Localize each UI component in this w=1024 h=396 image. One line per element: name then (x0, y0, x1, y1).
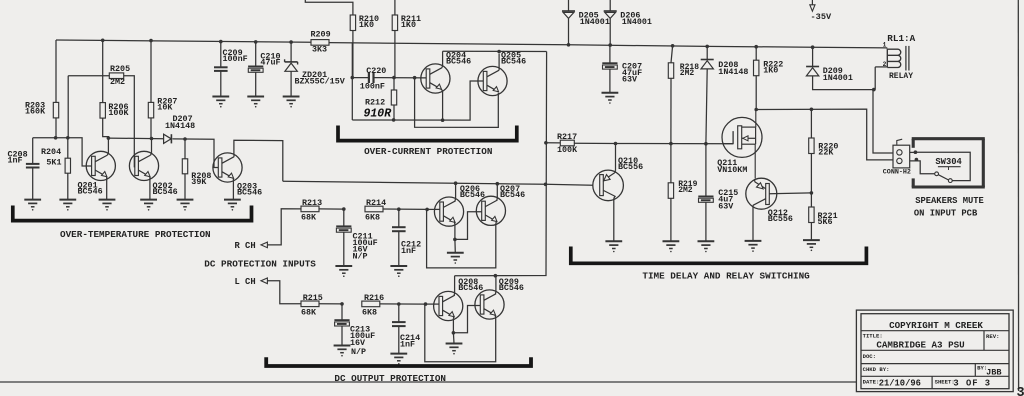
svg-text:1N4001: 1N4001 (622, 17, 652, 27)
transistor Q204 (421, 50, 471, 120)
svg-text:DOC:: DOC: (863, 353, 876, 360)
svg-text:BC546: BC546 (153, 187, 178, 197)
capacitor C220 (351, 66, 428, 92)
wire over-current bottom wire (352, 81, 484, 122)
handwritten sheet number 3 (1017, 386, 1024, 396)
svg-text:R214: R214 (366, 198, 386, 208)
resistor R221 (809, 193, 838, 240)
svg-text:100K: 100K (557, 145, 578, 155)
capacitor C213 (334, 302, 375, 357)
wire Q204-base to Q205-emitter link (415, 78, 499, 128)
resistor R214 (365, 198, 427, 222)
svg-text:6K8: 6K8 (365, 212, 380, 222)
wire Q207 emitter loop (427, 209, 496, 268)
svg-text:1N4001: 1N4001 (580, 17, 610, 27)
resistor R213 (301, 198, 344, 222)
svg-text:R213: R213 (302, 198, 322, 208)
svg-text:1nF: 1nF (8, 156, 23, 166)
transistor Q201 (78, 138, 116, 199)
wire Q206 ground stub (454, 239, 456, 252)
capacitor C215 (698, 144, 738, 241)
svg-text:6K8: 6K8 (362, 307, 377, 317)
label over-current protection (364, 146, 492, 157)
svg-text:68K: 68K (301, 307, 317, 317)
svg-text:1K0: 1K0 (359, 20, 374, 30)
ground R208 (177, 200, 194, 211)
ground Q206/Q207 (447, 253, 464, 264)
transistor Q206 (425, 183, 485, 239)
svg-text:R217: R217 (557, 132, 577, 142)
transistor Q208 (424, 276, 484, 333)
resistor R212 (364, 78, 397, 121)
scan border bottom line (0, 381, 856, 383)
svg-text:R215: R215 (303, 293, 323, 303)
svg-text:1nF: 1nF (400, 340, 415, 350)
svg-text:CHKD BY:: CHKD BY: (863, 366, 890, 373)
capacitor C212 (392, 207, 421, 265)
svg-text:5K6: 5K6 (818, 217, 833, 227)
svg-text:3 OF 3: 3 OF 3 (953, 379, 991, 389)
svg-text:3K3: 3K3 (312, 44, 327, 54)
relay RL1:A (875, 33, 915, 81)
bracket over-temperature protection (13, 206, 252, 221)
capacitor C210 (248, 40, 280, 96)
ground Q203 (224, 200, 241, 211)
svg-text:BC546: BC546 (78, 186, 103, 196)
transistor Q202 (129, 139, 177, 200)
capacitor C214 (392, 302, 420, 353)
svg-text:C220: C220 (366, 66, 386, 76)
svg-text:R CH: R CH (235, 241, 256, 251)
ground R219 (663, 241, 680, 252)
wire relay pin2 to conn pin1 (872, 67, 893, 153)
box speakers mute (thick border) (912, 139, 985, 187)
svg-text:5K1: 5K1 (46, 157, 61, 167)
switch SW304 wiring (910, 150, 971, 182)
label over-temperature protection (60, 229, 211, 240)
svg-text:COPYRIGHT M CREEK: COPYRIGHT M CREEK (889, 320, 983, 331)
svg-text:BC546: BC546 (499, 283, 524, 293)
resistor R216 (362, 293, 426, 317)
scan border right line (1017, 0, 1019, 391)
ground C212 (390, 266, 407, 277)
resistor R204 (41, 136, 71, 199)
diode D206 (604, 0, 652, 47)
bracket over-current protection (338, 126, 517, 141)
bracket time delay and relay switching (571, 247, 867, 264)
svg-text:BC546: BC546 (458, 283, 483, 293)
svg-text:SHEET:: SHEET: (935, 379, 955, 386)
svg-text:BC556: BC556 (618, 162, 643, 172)
transistor Q203 (213, 140, 283, 199)
resistor R219 (668, 144, 697, 241)
ground C209 (212, 97, 229, 108)
svg-text:L CH: L CH (235, 277, 256, 287)
ground C208 (24, 200, 41, 211)
svg-text:100K: 100K (108, 108, 129, 118)
ground Q202 (140, 200, 157, 211)
connector CONN-H2 (883, 139, 911, 176)
diode D207 (164, 114, 196, 143)
resistor R217 (546, 132, 616, 155)
wire Q206 emitter to Q207 base (453, 212, 482, 241)
svg-text:OVER-CURRENT PROTECTION: OVER-CURRENT PROTECTION (364, 146, 492, 157)
label dc output protection (334, 373, 446, 384)
input L CH arrow (235, 277, 302, 304)
mosfet Q211 (717, 110, 762, 179)
wire Q208 ground stub (452, 333, 455, 344)
capacitor C211 (336, 207, 377, 265)
resistor R210 (350, 14, 379, 78)
ground R221 (803, 240, 820, 251)
svg-text:2M2: 2M2 (680, 69, 695, 78)
ground Q208/Q209 (446, 344, 463, 355)
ground R204 (59, 200, 76, 211)
resistor R218 (668, 44, 699, 144)
label speakers mute (915, 196, 984, 206)
svg-text:TITLE:: TITLE: (863, 333, 883, 340)
label dc protection inputs (204, 258, 316, 269)
svg-text:68K: 68K (301, 212, 317, 222)
title block (856, 310, 1013, 392)
resistor R208 (182, 139, 211, 199)
resistor R220 (809, 109, 839, 194)
capacitor C208 (8, 138, 40, 200)
svg-text:BC546: BC546 (237, 188, 262, 198)
ground C207 (602, 93, 619, 104)
svg-text:DC PROTECTION INPUTS: DC PROTECTION INPUTS (204, 258, 316, 269)
svg-text:BC546: BC546 (500, 190, 525, 200)
resistor R206 (100, 39, 129, 139)
svg-text:R204: R204 (41, 147, 61, 157)
wire main -35V rail left segment (56, 40, 311, 42)
wire D207 to Q203 base (173, 137, 219, 167)
resistor R211 (392, 14, 421, 78)
svg-text:N/P: N/P (351, 347, 366, 357)
svg-text:3: 3 (1017, 386, 1024, 396)
svg-text:RL1:A: RL1:A (887, 33, 915, 44)
resistor R209 (311, 29, 331, 54)
svg-text:CAMBRIDGE A3 PSU: CAMBRIDGE A3 PSU (876, 340, 964, 351)
svg-text:22K: 22K (818, 148, 834, 158)
svg-text:1: 1 (883, 42, 887, 49)
svg-text:100nF: 100nF (223, 54, 248, 64)
ground C211 (335, 266, 352, 277)
svg-text:2M2: 2M2 (110, 77, 125, 87)
label on input pcb (914, 208, 978, 218)
wire net-A horizontal (33, 138, 93, 166)
svg-text:2M2: 2M2 (678, 186, 693, 195)
capacitor C207 (602, 45, 642, 93)
svg-text:REV:: REV: (986, 333, 999, 340)
wire Q209 emitter loop (425, 304, 496, 362)
svg-text:N/P: N/P (353, 251, 368, 261)
resistor R215 (301, 293, 342, 317)
transistor Q210 (546, 144, 644, 241)
svg-text:CONN-H2: CONN-H2 (883, 169, 911, 177)
svg-text:1K0: 1K0 (763, 66, 778, 76)
diode D205 (562, 0, 610, 47)
svg-text:-35V: -35V (811, 12, 832, 22)
svg-text:RELAY: RELAY (889, 72, 913, 81)
svg-text:1K0: 1K0 (401, 20, 416, 30)
wire protection collector rail (283, 181, 546, 185)
ground Q201 (99, 200, 116, 211)
svg-text:910R: 910R (364, 108, 392, 121)
zener diode ZD201 (285, 40, 346, 96)
svg-text:1N4001: 1N4001 (823, 73, 853, 83)
transistor Q209 (475, 276, 524, 319)
svg-text:TIME DELAY AND RELAY SWITCHING: TIME DELAY AND RELAY SWITCHING (642, 271, 810, 282)
resistor R203 (25, 40, 59, 140)
resistor R205 branch (68, 64, 136, 167)
svg-text:JBB: JBB (986, 368, 1001, 378)
wire net-B collector wire (107, 136, 164, 140)
svg-text:R205: R205 (110, 64, 130, 74)
bracket dc output protection (266, 357, 531, 366)
label time delay and relay switching (642, 271, 810, 282)
wire R211 top feed (394, 0, 396, 15)
wire top-left feed to R210 (305, 0, 353, 15)
svg-text:VN10KM: VN10KM (717, 165, 747, 175)
resistor R222 (754, 45, 784, 111)
wire Q208 emitter to Q209 base (452, 306, 482, 335)
svg-text:1N4148: 1N4148 (718, 67, 748, 77)
svg-text:BZX55C/15V: BZX55C/15V (295, 77, 346, 87)
wire over-current right vertical / R217 feed (455, 52, 548, 278)
svg-text:1N4148: 1N4148 (165, 121, 195, 131)
wire main rail right segment (329, 43, 887, 48)
svg-text:R216: R216 (364, 293, 384, 303)
resistor R207 (148, 39, 177, 139)
diode D208 (701, 45, 749, 144)
transistor Q207 (476, 184, 525, 226)
svg-text:OVER-TEMPERATURE PROTECTION: OVER-TEMPERATURE PROTECTION (60, 229, 211, 240)
svg-text:R209: R209 (311, 29, 331, 39)
svg-text:BC556: BC556 (768, 214, 793, 224)
svg-text:BC546: BC546 (460, 190, 485, 200)
svg-text:21/10/96: 21/10/96 (879, 379, 921, 389)
svg-text:100nF: 100nF (360, 82, 385, 92)
svg-text:SW304: SW304 (935, 157, 962, 167)
svg-text:R212: R212 (365, 98, 385, 108)
svg-text:63V: 63V (622, 75, 638, 85)
power flag -35V (810, 0, 832, 22)
diode D209 (806, 45, 873, 89)
svg-text:47uF: 47uF (260, 57, 280, 67)
input R CH arrow (235, 209, 302, 251)
svg-text:1nF: 1nF (401, 246, 416, 256)
ground ZD201 (283, 97, 300, 108)
transistor Q205 (478, 50, 526, 95)
transistor Q212 (746, 178, 812, 240)
ground C214 (390, 354, 407, 365)
ground C213 (334, 346, 351, 357)
wire over-current collector top wire (443, 50, 547, 54)
ground Q210 (605, 241, 622, 252)
svg-text:BC546: BC546 (446, 56, 471, 66)
ground C215 (698, 241, 715, 252)
svg-text:10K: 10K (157, 102, 173, 112)
svg-text:BC546: BC546 (501, 56, 526, 66)
wire over-current left vertical (351, 42, 353, 120)
svg-text:2: 2 (883, 61, 887, 68)
svg-text:SPEAKERS MUTE: SPEAKERS MUTE (915, 196, 984, 206)
svg-text:160K: 160K (25, 106, 46, 116)
ground Q212 (745, 241, 762, 252)
svg-text:39K: 39K (191, 177, 207, 187)
svg-text:63V: 63V (718, 201, 734, 211)
svg-text:ON INPUT PCB: ON INPUT PCB (914, 208, 978, 218)
label SW304 (935, 157, 962, 170)
svg-text:DATE:: DATE: (863, 379, 880, 386)
capacitor C209 (214, 40, 248, 97)
wire R222 junction to relay/conn (756, 108, 893, 160)
ground C210 (247, 97, 264, 108)
wire R217 gate net (614, 142, 733, 146)
